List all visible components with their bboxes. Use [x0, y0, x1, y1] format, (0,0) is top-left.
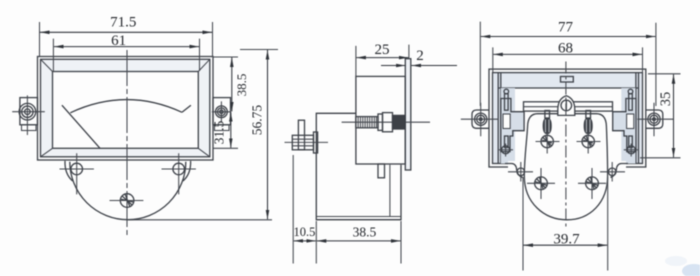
- svg-text:25: 25: [375, 42, 390, 58]
- svg-text:2: 2: [416, 48, 424, 64]
- svg-text:71.5: 71.5: [110, 15, 136, 31]
- svg-text:77: 77: [558, 20, 574, 36]
- svg-text:56.75: 56.75: [250, 105, 265, 136]
- svg-text:10.5: 10.5: [293, 225, 315, 239]
- svg-text:68: 68: [558, 40, 573, 56]
- svg-text:31.5: 31.5: [211, 120, 226, 144]
- svg-text:38.5: 38.5: [234, 74, 249, 97]
- svg-text:35: 35: [658, 92, 674, 107]
- svg-text:38.5: 38.5: [353, 225, 377, 240]
- svg-text:39.7: 39.7: [553, 231, 580, 247]
- svg-text:61: 61: [111, 33, 126, 49]
